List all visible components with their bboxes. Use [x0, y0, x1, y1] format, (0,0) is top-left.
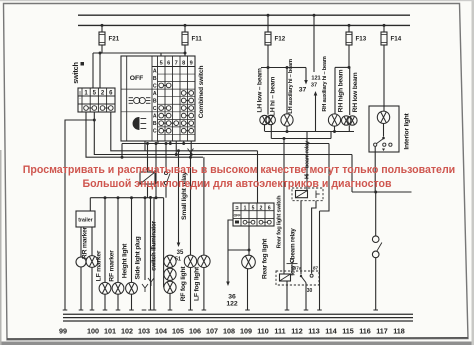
wire to switch terminal 2: [99, 53, 101, 88]
return bus second run: [271, 138, 331, 140]
svg-text:F21: F21: [109, 36, 120, 43]
light switch contact table: [78, 88, 115, 112]
hi-beam relay coil: [296, 191, 308, 198]
terminal 87a connector: [290, 259, 293, 262]
low-beam relay coil: [280, 274, 291, 281]
wire relay coil output to low-beam pivot: [300, 201, 302, 275]
lamp rear fog light: [242, 255, 256, 269]
svg-text:105: 105: [172, 327, 184, 336]
svg-text:110: 110: [257, 327, 269, 336]
wire to switch terminal 5: [92, 53, 94, 88]
svg-text:5: 5: [252, 205, 255, 211]
wire F12 down to headlamps: [267, 45, 269, 68]
svg-text:A: A: [153, 114, 157, 120]
wire branch to rear fog lamp: [228, 249, 249, 251]
parking light symbol: [129, 97, 151, 103]
lamp RH high/low beam (twin): [342, 116, 351, 125]
svg-text:111: 111: [274, 327, 285, 336]
svg-text:F13: F13: [356, 36, 367, 43]
svg-text:switch: switch: [71, 62, 80, 84]
svg-text:switch illuminator: switch illuminator: [151, 220, 158, 271]
svg-text:Rear fog light: Rear fog light: [262, 238, 269, 279]
wire rear fog lamp to bus: [247, 268, 249, 310]
svg-text:Side light plug: Side light plug: [135, 236, 142, 279]
svg-text:106: 106: [189, 327, 201, 336]
wire rear fog switch feed: [257, 151, 259, 203]
svg-text:F14: F14: [391, 36, 402, 43]
svg-text:trailer: trailer: [78, 218, 92, 224]
connector 36 arrow: [226, 271, 230, 286]
svg-text:99: 99: [59, 327, 67, 336]
wire connector 37 arrow: [291, 67, 306, 69]
wire to door switch: [375, 192, 377, 236]
svg-text:35: 35: [177, 250, 184, 256]
headlamp feed bar LH: [261, 67, 291, 69]
wire junction bar under F21/F11: [93, 52, 185, 54]
wire combined switch col6 drop: [169, 141, 171, 144]
interior light box: [369, 106, 399, 152]
combined switch box: [121, 56, 195, 141]
rear fog light switch table: [233, 203, 274, 226]
wire relay 30 to bus: [305, 283, 307, 311]
svg-text:37: 37: [311, 83, 317, 89]
wire F14 down to interior light: [383, 45, 385, 111]
wire stub from combined switch bottom: [144, 141, 146, 151]
switch contacts row: [84, 106, 89, 111]
wires to ground bus near 103: [150, 198, 152, 311]
wire rear fog switch to connector 36/122: [228, 220, 233, 271]
svg-text:117: 117: [376, 327, 388, 336]
wire junction to edge: [352, 191, 412, 193]
wire drop from long run: [351, 155, 353, 193]
svg-text:F11: F11: [192, 36, 203, 43]
switch illuminator lamps: [163, 198, 165, 288]
lamp RF marker: [117, 198, 119, 283]
wire feed to low-beam relay coil: [283, 139, 285, 275]
svg-text:113: 113: [308, 327, 320, 336]
svg-text:118: 118: [393, 327, 405, 336]
svg-text:101: 101: [104, 327, 116, 336]
svg-text:|: |: [79, 90, 80, 95]
svg-text:OFF: OFF: [234, 214, 241, 218]
low-beam relay box (dashed): [276, 271, 319, 285]
svg-text:RH auxiliary hi – beam: RH auxiliary hi – beam: [322, 56, 328, 111]
svg-text:107: 107: [206, 327, 218, 336]
svg-text:9: 9: [190, 61, 193, 67]
wire F11 down to combined switch: [184, 45, 186, 56]
rear fog switch contacts: [243, 220, 247, 224]
svg-text:F12: F12: [275, 36, 286, 43]
svg-text:RH high beam: RH high beam: [338, 69, 345, 112]
svg-text:87: 87: [313, 266, 319, 271]
headlamp feed bar RH: [335, 66, 350, 68]
svg-text:6: 6: [268, 205, 271, 211]
svg-text:8: 8: [182, 61, 185, 67]
svg-text:RH low beam: RH low beam: [352, 72, 359, 112]
lamp harness comb wire: [90, 197, 163, 199]
ground bus terminal ticks: [63, 309, 68, 311]
svg-text:1: 1: [244, 205, 247, 211]
wire hi-beam relay to bus: [320, 144, 330, 212]
svg-text:RF fog light: RF fog light: [180, 266, 187, 302]
svg-text:Большой энциклопедии для автоэ: Большой энциклопедии для автоэлектриков …: [82, 178, 392, 190]
wire switch output lower run: [86, 112, 203, 157]
wire left feed to ground bus: [65, 120, 94, 310]
lamp LF marker: [104, 198, 106, 283]
svg-text:LF marker: LF marker: [96, 250, 103, 281]
fuse F14: [383, 25, 385, 32]
fuse F21: [101, 25, 103, 32]
svg-text:B: B: [153, 76, 157, 82]
svg-text:A: A: [153, 68, 157, 74]
wire door switch to bus: [375, 258, 377, 310]
small light relay contact: [164, 171, 167, 174]
svg-text:Просматривать и распечатывать: Просматривать и распечатывать в высоком …: [23, 164, 455, 176]
power bus line 2: [78, 24, 410, 26]
hi-beam relay box (dashed): [292, 188, 323, 201]
svg-text:A: A: [153, 91, 157, 97]
wire trailer to RR lamp: [80, 227, 82, 257]
svg-text:C: C: [153, 83, 157, 89]
scan edge shading: [0, 342, 474, 345]
lamp RR marker: [91, 227, 93, 256]
svg-text:102: 102: [121, 327, 133, 336]
lamp LH auxiliary hi-beam: [281, 114, 293, 126]
svg-text:OFF: OFF: [130, 75, 144, 82]
svg-text:Height light: Height light: [122, 243, 129, 278]
wire combined switch col9 drop: [190, 141, 192, 155]
svg-text:109: 109: [240, 327, 252, 336]
svg-text:37: 37: [299, 87, 307, 94]
fuse F13: [348, 25, 350, 32]
svg-text:Interior light: Interior light: [404, 112, 411, 149]
fuse F12: [267, 15, 269, 32]
wire rear fog switch to lamp: [248, 226, 250, 256]
wire connector 121 up arrow: [314, 91, 318, 132]
low-beam relay contact: [300, 275, 302, 277]
wire from bus to node 121/37: [313, 15, 315, 72]
lamp RF fog light: [190, 157, 192, 255]
wire to RH lamps: [334, 67, 336, 114]
svg-text:LH low – beam: LH low – beam: [257, 68, 264, 113]
ground bus lines: [63, 313, 413, 315]
svg-text:104: 104: [155, 327, 167, 336]
trailer connector box: [89, 198, 91, 211]
fuse F11: [184, 25, 186, 32]
interior light switch: [383, 124, 385, 137]
wire interior switch down: [374, 146, 376, 192]
lamp RR marker left: [76, 257, 86, 267]
wire switch output long run: [94, 112, 352, 155]
wire switch output run to rear fog switch: [111, 112, 258, 151]
lamp RH auxiliary hi-beam: [328, 114, 340, 126]
lamp LH low/hi beam (twin): [260, 115, 269, 124]
svg-text:LH hi – beam: LH hi – beam: [270, 77, 277, 117]
svg-text:6: 6: [167, 61, 170, 67]
combined switch grid: [126, 56, 128, 141]
svg-text:108: 108: [223, 327, 235, 336]
svg-text:Rear fog light switch: Rear fog light switch: [277, 195, 283, 248]
svg-text:5: 5: [160, 61, 163, 67]
svg-text:C: C: [153, 106, 157, 112]
svg-text:116: 116: [359, 327, 371, 336]
lamp height light: [131, 198, 133, 283]
side light plug forks: [142, 278, 154, 292]
door switch: [372, 236, 379, 243]
wire to LH lamps: [267, 68, 269, 115]
lamp interior light: [377, 111, 389, 123]
svg-text:112: 112: [291, 327, 303, 336]
svg-text:7: 7: [175, 61, 178, 67]
svg-text:Combined switch: Combined switch: [198, 66, 205, 119]
wire combined switch col8 drop: [183, 141, 185, 144]
wire stub into combined switch col 5: [160, 53, 162, 56]
side light plug wire: [144, 198, 146, 280]
svg-text:LF fog light: LF fog light: [194, 266, 201, 301]
svg-text:2: 2: [260, 205, 263, 211]
headlamp return bus: [265, 131, 354, 133]
small light relay coil: [140, 172, 155, 184]
svg-text:103: 103: [138, 327, 150, 336]
wire relay contact output step: [312, 201, 316, 274]
svg-text:122: 122: [226, 301, 238, 308]
wire F13 down to RH lamps: [348, 45, 350, 67]
wire drops crossing watermark: [155, 144, 157, 198]
lamp return stubs: [264, 125, 266, 132]
combined switch contact circles: [159, 83, 164, 88]
wire F21 to junction: [101, 45, 103, 53]
svg-text:30: 30: [307, 288, 313, 294]
svg-text:121: 121: [311, 76, 320, 82]
wire drop joining lower run: [121, 144, 123, 158]
svg-text:B: B: [153, 121, 157, 127]
svg-text:⊐: ⊐: [235, 204, 239, 210]
svg-text:B: B: [153, 99, 157, 105]
svg-text:87a: 87a: [294, 266, 302, 271]
svg-text:115: 115: [342, 327, 354, 336]
wire combined switch col7 output drop: [175, 141, 177, 155]
svg-text:RR marker: RR marker: [82, 226, 89, 259]
wire relay coil to bus: [286, 281, 288, 310]
lamp LF fog light: [203, 157, 205, 255]
power bus line 1 (top): [78, 14, 410, 16]
svg-text:C: C: [153, 129, 157, 135]
wire combined switch col5 output: [122, 141, 158, 144]
svg-text:114: 114: [325, 327, 337, 336]
hi-beam relay contact pin: [315, 191, 317, 199]
headlight symbol: [133, 118, 146, 130]
wire 35 connector drop: [177, 149, 180, 152]
svg-text:36: 36: [228, 294, 236, 301]
wire mid run 1: [122, 143, 329, 145]
svg-text:RF marker: RF marker: [109, 250, 116, 282]
wire feed to hi-beam relay coil: [306, 132, 308, 191]
svg-text:100: 100: [87, 327, 99, 336]
